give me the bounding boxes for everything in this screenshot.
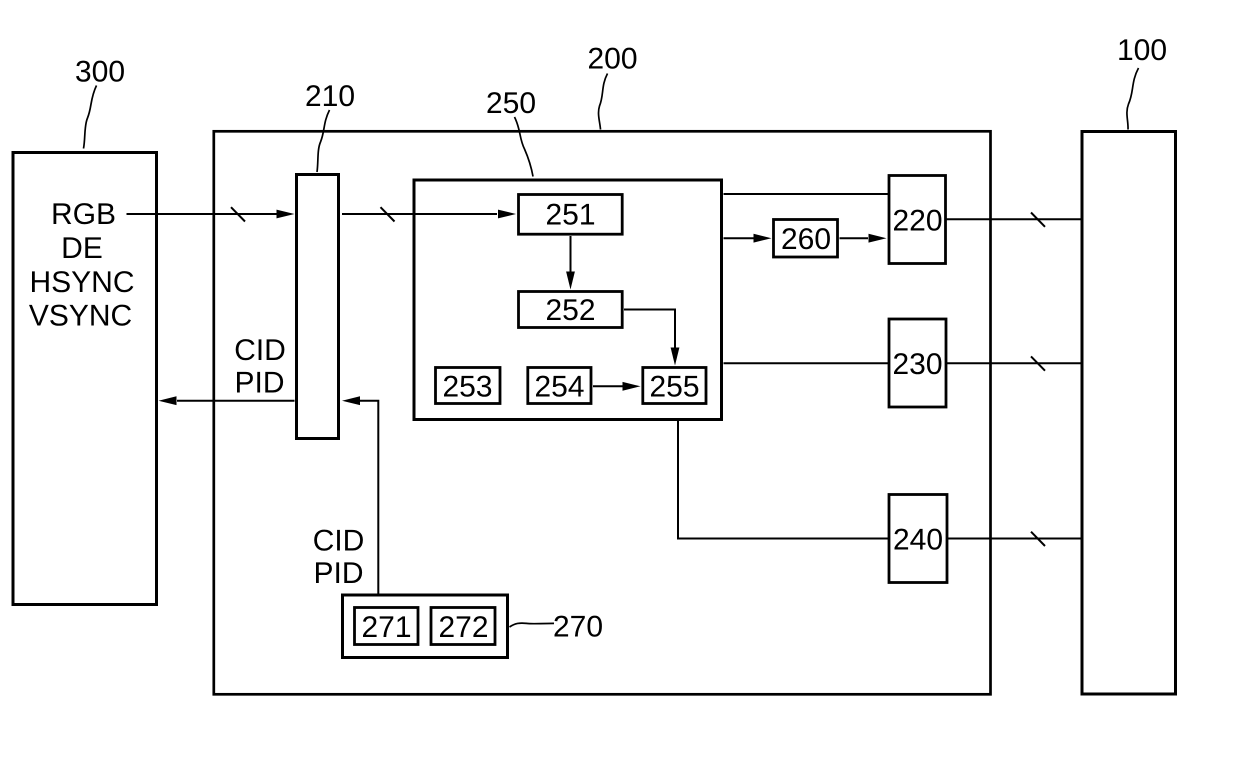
wire 210 to 300 (return CID/PID) — [177, 400, 295, 402]
arrowhead into 252 — [566, 272, 575, 290]
arrowhead into 210 right side — [342, 396, 360, 405]
slash on wire 220-100 — [1031, 213, 1045, 227]
text RGB — [54, 203, 115, 224]
arrowhead into 255 left — [623, 382, 641, 391]
wire 250 to 230 — [724, 362, 889, 364]
text VSYNC — [29, 305, 131, 326]
arrowhead into 210 — [277, 210, 295, 219]
block 270 (outer memory box) — [343, 595, 508, 658]
block 210 (receiver narrow box) — [297, 175, 339, 439]
wire 210 to 251 — [342, 213, 497, 215]
block 260 — [774, 220, 838, 258]
wire 250 to 220 (top) — [724, 193, 889, 195]
text CID (upper, beside 210) — [236, 339, 285, 360]
leader squiggle 100 — [1127, 68, 1139, 130]
arrowhead into 220 — [869, 234, 887, 243]
wire 250 to 240 — [678, 420, 888, 539]
arrowhead into 260 — [754, 234, 772, 243]
wire 250 to 260 — [724, 237, 754, 239]
wire 260 to 220 — [840, 237, 869, 239]
slash on wire 210-251 — [381, 207, 395, 221]
block 220 — [889, 176, 946, 264]
leader squiggle 250 — [515, 117, 534, 177]
block 251 — [519, 195, 623, 235]
wire 230 to 100 — [947, 362, 1082, 364]
label 300 — [76, 61, 124, 82]
block 271 — [355, 608, 419, 645]
block 254 — [528, 368, 591, 404]
text CID (lower, above 270) — [314, 530, 363, 551]
slash on wire 230-100 — [1031, 356, 1045, 370]
text PID (lower, above 270) — [316, 562, 362, 583]
leader squiggle 270 — [510, 623, 555, 627]
wire RGB to 210 — [127, 213, 278, 215]
block 253 — [436, 368, 501, 404]
text DE — [64, 237, 102, 258]
block 255 — [643, 368, 706, 404]
wire 270 to 210 — [360, 401, 378, 594]
block 230 — [889, 319, 946, 407]
label 210 — [307, 85, 354, 106]
slash on wire 240-100 — [1031, 532, 1045, 546]
block 252 — [519, 292, 623, 328]
block 250 (inner processing box) — [414, 180, 722, 420]
text HSYNC — [32, 271, 133, 292]
block 300 (source device box) — [13, 153, 157, 605]
block 240 — [889, 495, 947, 583]
label 250 — [488, 92, 535, 113]
label 270 — [555, 616, 602, 637]
wire 254 to 255 — [593, 385, 623, 387]
block 100 (display panel box) — [1082, 132, 1176, 695]
slash on wire 300-210 — [231, 207, 245, 221]
block 272 — [431, 608, 495, 645]
label 100 — [1119, 39, 1166, 60]
arrowhead into 300 — [159, 396, 177, 405]
wire 252 to 255 — [624, 310, 675, 349]
leader squiggle 200 — [599, 74, 608, 130]
wire 220 to 100 — [947, 218, 1082, 220]
leader squiggle 300 — [84, 86, 97, 149]
arrowhead into 255 top — [671, 348, 680, 366]
wire 240 to 100 — [948, 538, 1081, 540]
block 200 (outer timing controller box) — [214, 131, 991, 694]
label 200 — [589, 48, 636, 69]
leader squiggle 210 — [317, 110, 330, 172]
wire 251 to 252 — [570, 236, 572, 272]
text PID (upper, beside 210) — [237, 372, 283, 393]
arrowhead into 251 — [498, 210, 516, 219]
